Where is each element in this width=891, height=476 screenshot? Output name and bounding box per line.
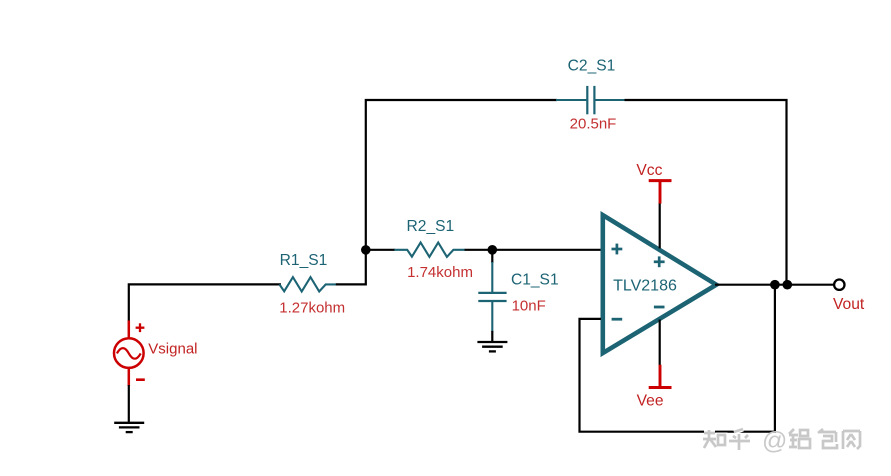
svg-text:1.74kohm: 1.74kohm (407, 264, 473, 281)
value 1.27kohm (279, 300, 345, 317)
value 10nF (512, 298, 546, 315)
wire source to ground (128, 385, 130, 423)
capacitor C1 (C1_S1) (478, 250, 506, 332)
watermark 知乎 @锅包肉 (703, 427, 860, 455)
label Vout (833, 296, 865, 313)
power pin Vcc (649, 181, 672, 249)
svg-text:C2_S1: C2_S1 (568, 58, 616, 75)
wire source to R1 (129, 284, 281, 321)
wire op-amp output to terminal (715, 284, 833, 286)
label Vcc (636, 162, 662, 179)
voltage source Vsignal (114, 321, 145, 387)
capacitor C2 (C2_S1) (556, 86, 625, 114)
wire C1 to ground (491, 331, 493, 343)
svg-text:@: @ (762, 427, 787, 455)
svg-text:R1_S1: R1_S1 (280, 252, 328, 269)
label R1_S1 (280, 252, 328, 269)
ground under C1 (477, 342, 507, 351)
value 1.74kohm (407, 264, 473, 281)
resistor R2 (R2_S1) (394, 243, 465, 257)
svg-text:20.5nF: 20.5nF (570, 115, 617, 132)
label Vee (637, 393, 664, 410)
svg-text:Vout: Vout (833, 296, 865, 313)
svg-text:Vcc: Vcc (636, 162, 662, 179)
label C1_S1 (511, 272, 559, 289)
node output junction dot right (783, 280, 793, 290)
wire R1 to corner, up, and top run to C2 (336, 100, 557, 284)
label R2_S1 (407, 218, 455, 235)
svg-text:10nF: 10nF (512, 298, 546, 315)
label Vsignal (148, 340, 197, 357)
op-amp U1 TLV2186 (603, 215, 717, 353)
svg-text:1.27kohm: 1.27kohm (279, 300, 345, 317)
wire node A to R2 (366, 249, 395, 251)
wire C2 to output node (right side down) (625, 100, 787, 285)
label TLV2186 (613, 278, 677, 295)
terminal Vout (834, 280, 844, 290)
power pin Vee (649, 320, 672, 388)
svg-text:TLV2186: TLV2186 (613, 278, 677, 295)
ground under Vsignal (114, 423, 144, 432)
node output junction dot left (770, 280, 780, 290)
label C2_S1 (568, 58, 616, 75)
wire feedback loop to - input (580, 285, 775, 432)
wire R2 to op-amp + input through node B (465, 249, 601, 251)
resistor R1 (R1_S1) (279, 277, 336, 291)
svg-text:R2_S1: R2_S1 (407, 218, 455, 235)
value 20.5nF (570, 115, 617, 132)
node A junction dot (361, 245, 371, 255)
node B junction dot (488, 245, 498, 255)
svg-text:Vee: Vee (637, 393, 664, 410)
svg-text:C1_S1: C1_S1 (511, 272, 559, 289)
svg-text:Vsignal: Vsignal (148, 340, 197, 357)
